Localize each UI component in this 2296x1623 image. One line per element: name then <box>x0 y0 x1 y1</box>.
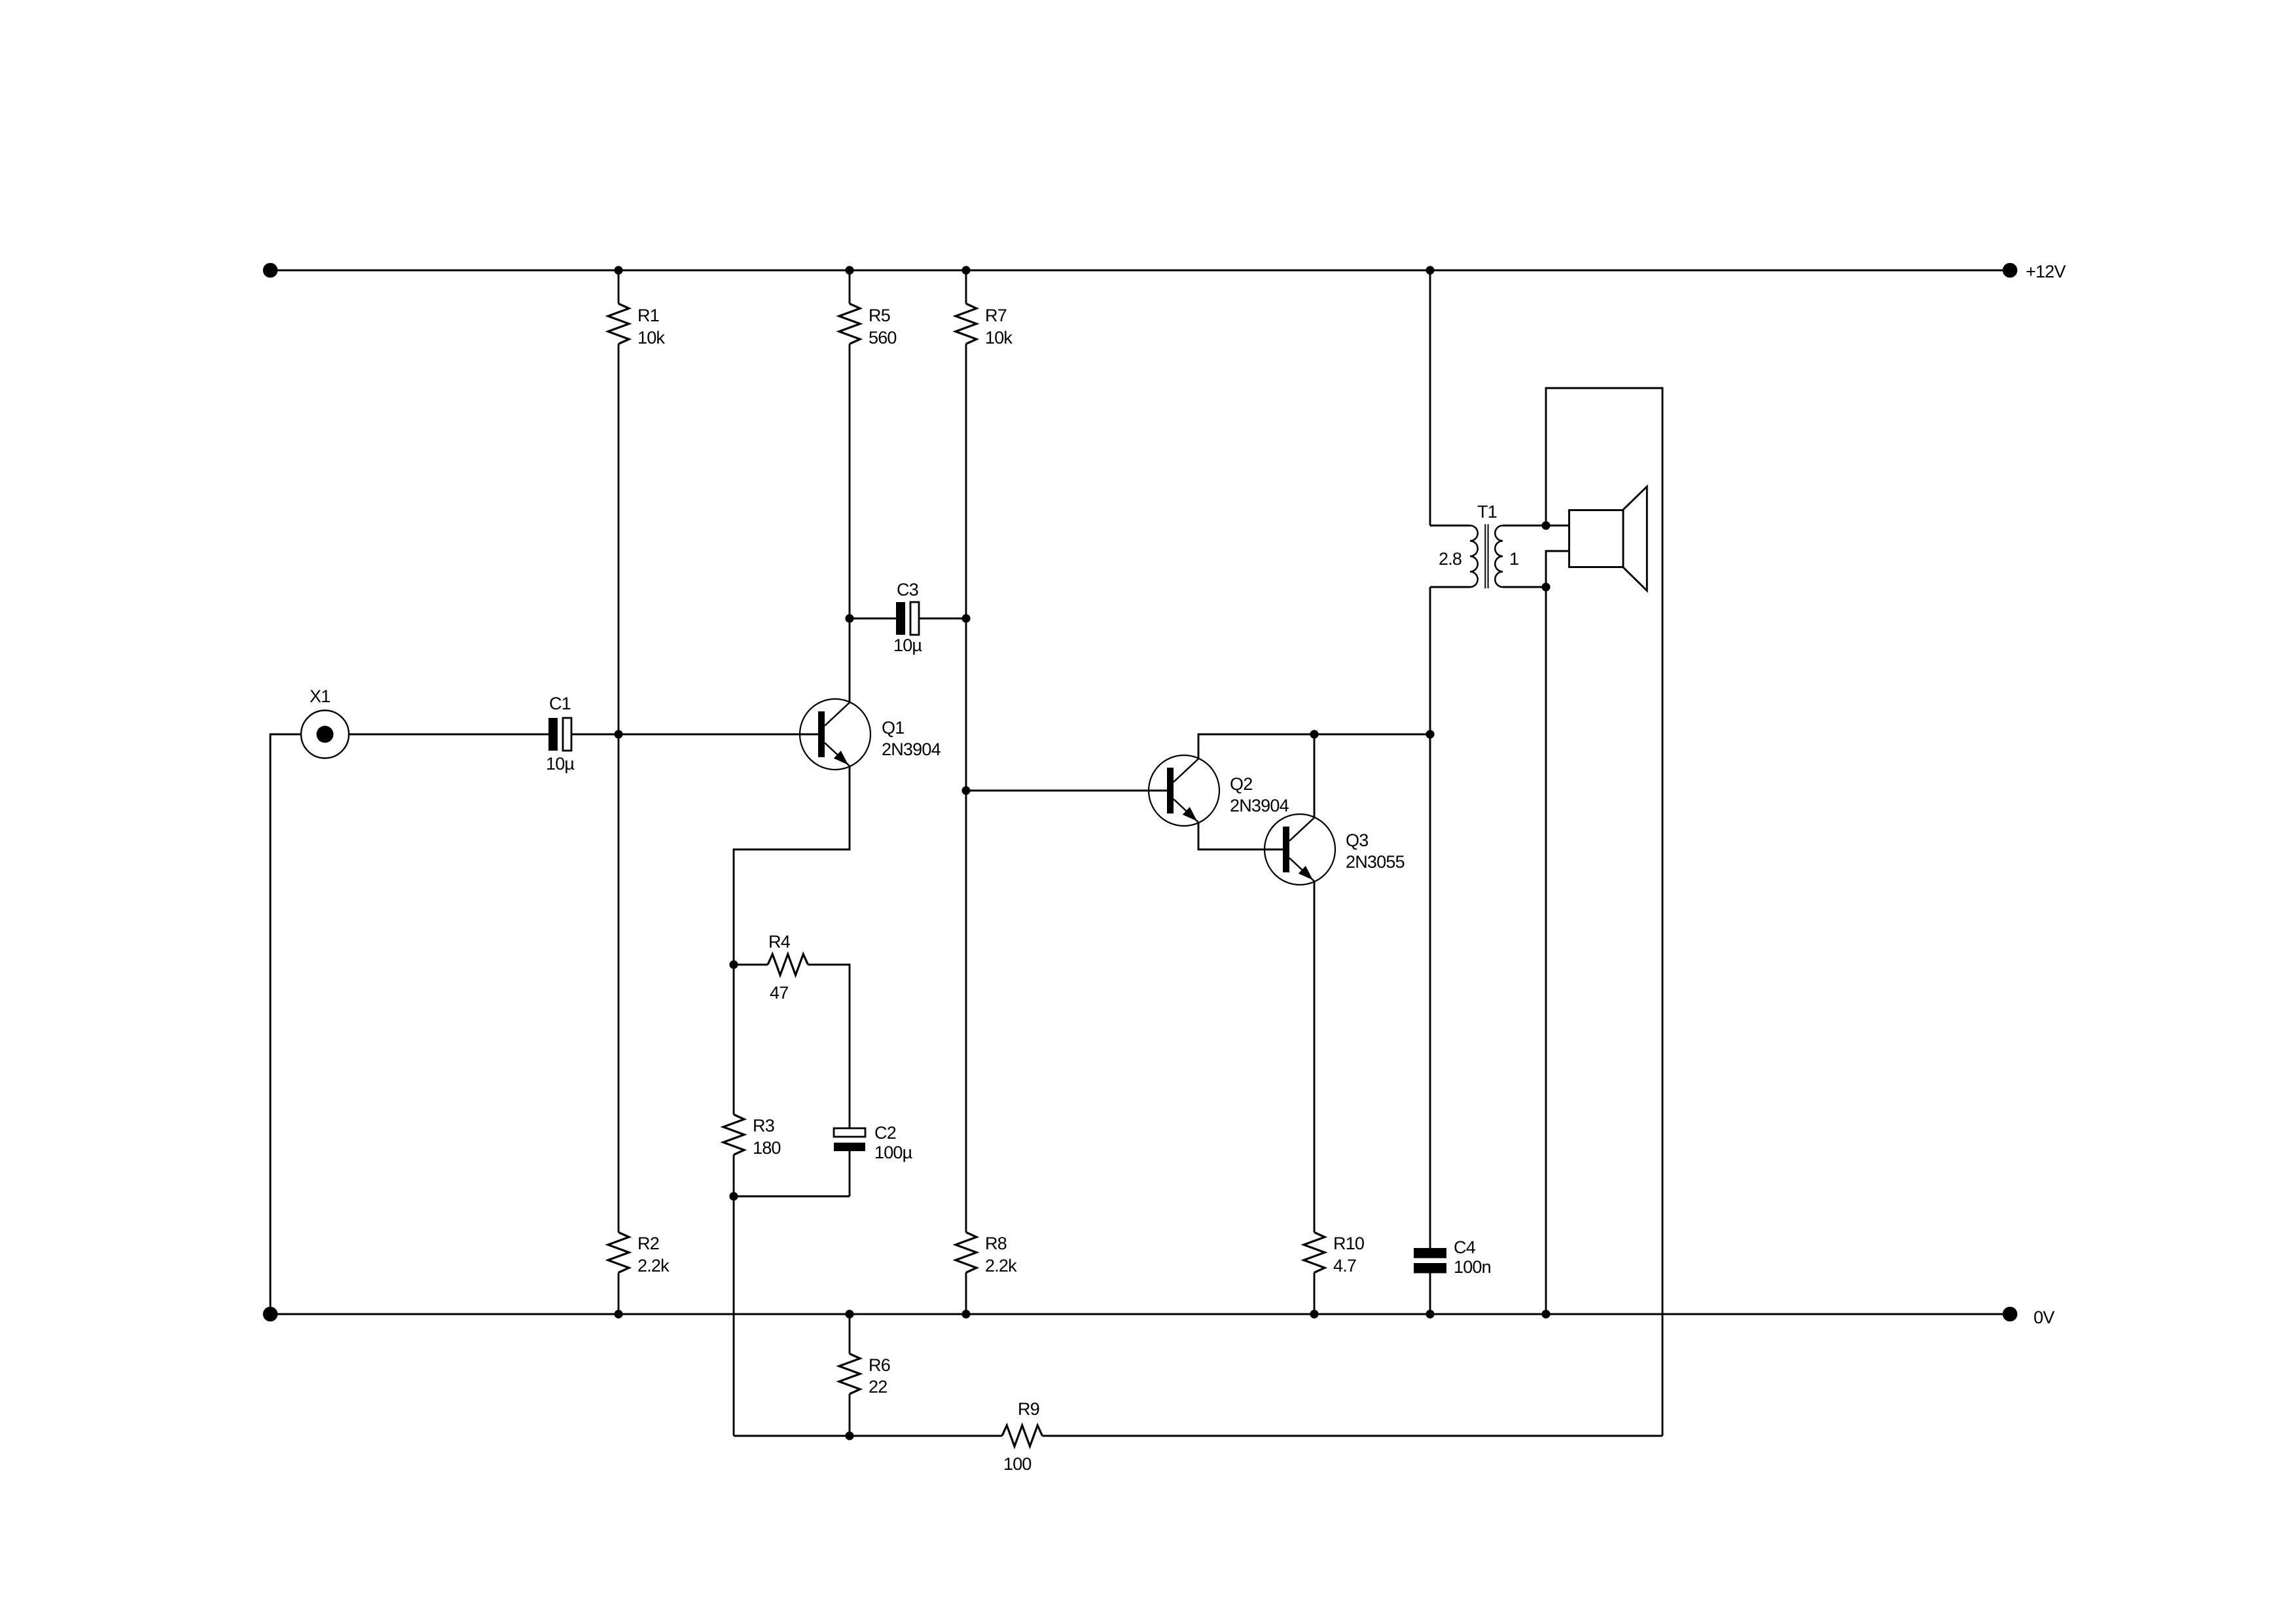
wire Q2 collector up and over <box>1198 734 1430 759</box>
wire speaker bottom lead <box>1546 551 1570 587</box>
svg-text:2N3904: 2N3904 <box>1230 796 1289 815</box>
wire supply line to T1 and C4 <box>1429 270 1431 1248</box>
svg-text:C4: C4 <box>1454 1238 1476 1257</box>
wire R10 bottom lead <box>1314 1273 1316 1315</box>
svg-text:47: 47 <box>770 983 788 1003</box>
svg-text:2.2k: 2.2k <box>637 1256 670 1275</box>
svg-text:100: 100 <box>1003 1454 1031 1474</box>
wire Q1 emitter to R4 node <box>734 766 850 965</box>
svg-text:Q2: Q2 <box>1230 774 1252 794</box>
svg-text:10µ: 10µ <box>546 754 574 774</box>
resistor R5 <box>839 304 890 344</box>
junction dot R5 bottom at C3 <box>845 614 853 622</box>
wire R1 R2 divider vertical <box>618 270 620 1314</box>
resistor R3 <box>723 1115 774 1155</box>
svg-text:R10: R10 <box>1333 1234 1364 1253</box>
svg-text:R4: R4 <box>768 932 791 952</box>
wire R7 line vertical <box>965 270 967 1314</box>
transistor Q2 <box>1149 755 1252 826</box>
junction dot T1 secondary top <box>1541 521 1550 529</box>
svg-text:2.8: 2.8 <box>1439 549 1462 569</box>
wire R3 vertical <box>733 965 735 1436</box>
wire speaker top lead <box>1546 525 1570 527</box>
resistor R2 <box>608 1232 659 1273</box>
junction dot R6 bottom on feedback wire <box>845 1431 853 1440</box>
junction dot R5 top on +12V rail <box>845 266 853 274</box>
junction dot C4 bottom on 0V rail <box>1426 1310 1434 1318</box>
capacitor C4 <box>1414 1238 1476 1274</box>
resistor R1 <box>608 304 659 344</box>
resistor R9 <box>1002 1399 1043 1446</box>
wire Q2 base <box>966 790 1167 792</box>
junction dot R3 bottom node <box>729 1192 738 1200</box>
transistor Q1 <box>800 699 904 770</box>
resistor R6 <box>839 1354 890 1395</box>
wire Q3 collector vertical <box>1314 734 1316 818</box>
junction dot R7 at C3 <box>961 614 970 622</box>
capacitor C3 <box>896 580 919 635</box>
resistor R4 <box>768 932 808 975</box>
resistor R8 <box>956 1232 1007 1273</box>
capacitor C2 <box>834 1123 896 1151</box>
svg-text:R2: R2 <box>637 1234 659 1253</box>
wire secondary bottom to 0V rail <box>1545 587 1547 1314</box>
transformer T1 <box>1430 502 1546 588</box>
junction dot R10 bottom on 0V rail <box>1310 1310 1318 1318</box>
junction dot Q2 base node <box>961 786 970 794</box>
svg-text:1: 1 <box>1509 549 1518 569</box>
junction dot R8 bottom on 0V rail <box>961 1310 970 1318</box>
svg-text:560: 560 <box>869 328 897 348</box>
wire X1 ground drop <box>270 734 301 1314</box>
wire R5 collector line vertical <box>849 270 851 703</box>
svg-text:C2: C2 <box>874 1123 896 1143</box>
svg-text:10k: 10k <box>985 328 1013 348</box>
transistor Q3 <box>1265 814 1368 885</box>
svg-text:180: 180 <box>753 1138 781 1158</box>
wire Q3 emitter to R10 <box>1314 882 1316 1233</box>
svg-text:C1: C1 <box>549 694 571 713</box>
junction dot supply line on +12V rail <box>1426 266 1434 274</box>
svg-text:100n: 100n <box>1454 1257 1491 1277</box>
wire +12V rail <box>270 270 2010 272</box>
svg-text:R6: R6 <box>869 1355 890 1375</box>
junction dot R6 top on 0V rail <box>845 1310 853 1318</box>
svg-text:100µ: 100µ <box>874 1143 912 1162</box>
svg-text:R8: R8 <box>985 1234 1007 1253</box>
wire C2 bottom lead <box>849 1151 851 1196</box>
svg-text:R3: R3 <box>753 1116 774 1135</box>
wire X1 to C1 <box>349 734 548 736</box>
terminal dot 0V left <box>263 1307 278 1322</box>
capacitor C1 <box>548 694 571 751</box>
junction dot R2 bottom on 0V rail <box>614 1310 622 1318</box>
svg-text:Q1: Q1 <box>882 718 904 738</box>
svg-text:4.7: 4.7 <box>1333 1256 1356 1275</box>
terminal dot 0V right <box>2003 1307 2018 1322</box>
svg-text:2.2k: 2.2k <box>985 1256 1017 1275</box>
svg-text:2N3904: 2N3904 <box>882 740 941 759</box>
junction dot supply line at Q2 collector wire <box>1426 730 1434 738</box>
svg-text:R7: R7 <box>985 306 1007 325</box>
svg-text:X1: X1 <box>310 687 330 706</box>
terminal dot +12V left <box>263 263 278 278</box>
wire 0V rail <box>270 1313 2010 1315</box>
wire R3 C2 bottom link <box>734 1196 850 1198</box>
wire secondary top to speaker loop <box>1546 388 1662 1436</box>
junction dot C1 node at R1/R2 divider <box>614 730 622 738</box>
wire R4 left lead <box>734 964 768 966</box>
svg-text:R9: R9 <box>1018 1399 1039 1419</box>
svg-text:R5: R5 <box>869 306 890 325</box>
junction dot R7 top on +12V rail <box>961 266 970 274</box>
wire C1 to Q1 base <box>572 734 818 736</box>
wire R4 right to C2 top <box>808 965 850 1128</box>
svg-text:2N3055: 2N3055 <box>1346 852 1405 872</box>
wire Q2 emitter to Q3 base <box>1198 823 1283 850</box>
junction dot T1 secondary bottom <box>1541 582 1550 591</box>
junction dot R1 top on +12V rail <box>614 266 622 274</box>
terminal dot +12V right <box>2003 263 2018 278</box>
svg-text:0V: 0V <box>2034 1308 2054 1327</box>
svg-text:C3: C3 <box>897 580 918 599</box>
svg-text:Q3: Q3 <box>1346 830 1368 850</box>
svg-text:10µ: 10µ <box>893 635 922 655</box>
svg-text:10k: 10k <box>637 328 665 348</box>
speaker LS1 <box>1570 487 1647 591</box>
junction dot Q3 collector node <box>1310 730 1318 738</box>
wire C3 link <box>850 618 966 620</box>
wire R6 vertical <box>849 1314 851 1436</box>
svg-text:22: 22 <box>869 1377 887 1397</box>
junction dot secondary return on 0V rail <box>1541 1310 1550 1318</box>
wire feedback R9 line <box>734 1435 1662 1437</box>
resistor R7 <box>956 304 1007 344</box>
resistor R10 <box>1304 1232 1364 1273</box>
wire C4 bottom lead <box>1429 1274 1431 1315</box>
connector X1 <box>301 687 349 758</box>
svg-text:+12V: +12V <box>2026 262 2066 281</box>
svg-text:R1: R1 <box>637 306 659 325</box>
junction dot R4 R3 node <box>729 960 738 969</box>
svg-text:T1: T1 <box>1477 502 1497 522</box>
